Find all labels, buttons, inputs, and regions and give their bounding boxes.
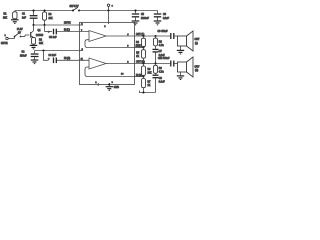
label C7 0.1uF (159, 51, 165, 57)
svg-text:10K: 10K (3, 17, 8, 19)
label R9 4.7 (159, 68, 164, 74)
svg-text:1K: 1K (136, 56, 139, 58)
svg-text:3V: 3V (18, 32, 21, 34)
label R4 22K (136, 42, 141, 48)
ground below R2 (30, 45, 38, 49)
node junction C1 bottom (32, 24, 34, 26)
wire supply stub down to IC pin 2 (108, 11, 110, 25)
speaker OUT L (178, 31, 194, 51)
ground below IC (106, 87, 113, 91)
label R1 10K (3, 14, 8, 20)
resistor R4 (142, 36, 146, 48)
label C6 0.1uF (163, 14, 169, 20)
resistor R9 zobel R (154, 64, 158, 75)
wire A2 output to pin 2 (106, 63, 135, 65)
label R5 1K (136, 53, 140, 59)
node junction ground pin (108, 83, 110, 85)
wire bypass node row to IC pin 5 (35, 50, 80, 52)
wire top supply rail right segment (79, 10, 158, 12)
ground below C5 (132, 21, 140, 25)
node junction pin10 R6 R7 (142, 75, 144, 77)
wire top supply rail left segment (15, 10, 73, 12)
label C2 100uF (20, 52, 27, 58)
wire bottom right ground row (140, 91, 156, 93)
wire A2 feedback loop (85, 67, 135, 77)
label C8 0.1uF (159, 78, 165, 84)
svg-text:1K: 1K (148, 85, 151, 87)
svg-text:IN (L): IN (L) (64, 29, 70, 31)
label OUT (L) speaker (195, 39, 200, 45)
wire OUT R row (135, 63, 171, 65)
pin 9 stub bottom (108, 83, 110, 86)
node junction pin8 R4 R5 (142, 46, 144, 48)
capacitor C9 (171, 33, 178, 39)
label PLAY 3V (17, 28, 23, 35)
svg-text:SW 5.7V: SW 5.7V (70, 6, 80, 8)
node junction R3 bottom (43, 24, 45, 26)
svg-text:BC548: BC548 (36, 35, 44, 37)
svg-text:C4 1uF: C4 1uF (49, 55, 57, 57)
resistor R5 (142, 48, 146, 64)
label OUT (R) speaker (195, 66, 200, 72)
svg-text:22K: 22K (136, 45, 141, 47)
svg-text:C10 470uF: C10 470uF (158, 58, 170, 60)
capacitor C10 (171, 61, 178, 67)
svg-text:10K: 10K (49, 18, 54, 20)
svg-text:22K: 22K (148, 73, 153, 75)
ground below speaker L (177, 50, 184, 54)
pin 1 stub bottom (97, 83, 99, 86)
label R6 22K (148, 69, 153, 75)
node junction R7 bottom (142, 91, 144, 93)
svg-text:1000uF: 1000uF (141, 18, 149, 20)
resistor R3 (43, 11, 47, 26)
capacitor C4 (54, 58, 90, 64)
op-amp A2 (89, 58, 106, 69)
wire drop from bypass node to C4 row (44, 51, 49, 61)
resistor R1 (13, 11, 17, 20)
capacitor C7 (153, 49, 159, 63)
resistor R7 (142, 77, 146, 93)
svg-text:C3 1uF: C3 1uF (49, 37, 57, 39)
label C1 1uF (22, 14, 27, 20)
wire A1 feedback loop (85, 40, 135, 48)
svg-text:4.7Ω: 4.7Ω (159, 70, 164, 73)
capacitor C3 (45, 25, 90, 34)
svg-text:OUT: OUT (195, 66, 200, 68)
capacitor C6 (154, 11, 161, 21)
label R2 10K (39, 39, 44, 45)
svg-text:4.7Ω: 4.7Ω (159, 44, 164, 47)
pin 6 stub (78, 24, 83, 26)
wire pin8 to R4 (135, 47, 144, 49)
svg-text:0.1uF: 0.1uF (159, 81, 165, 83)
switch PLAY (14, 33, 30, 38)
ground below speaker R (177, 76, 184, 80)
ground below R1 (11, 20, 19, 24)
op-amp A1 (89, 31, 106, 42)
capacitor C5 (132, 11, 139, 21)
svg-text:PLAY: PLAY (17, 28, 23, 31)
node junction R8 top (154, 35, 156, 37)
transistor Q1 (31, 25, 34, 38)
node junction R4 top (142, 35, 144, 37)
svg-text:IN (R): IN (R) (64, 58, 70, 60)
node junction supply stub on rail (107, 9, 109, 11)
resistor R8 zobel L (154, 36, 158, 49)
pin 5 stub (80, 50, 84, 52)
label Q1 BC548 (36, 30, 44, 37)
label C5 1000uF (141, 14, 149, 20)
connector J1 MUTE input (6, 37, 15, 40)
wire mute node line (34, 24, 80, 26)
node junction C1 top on rail (32, 9, 34, 11)
wire pin10 to R6 (135, 76, 144, 78)
resistor R2 (32, 37, 36, 45)
label R7 1K (148, 81, 152, 87)
svg-text:MUTE: MUTE (64, 23, 71, 25)
supply terminal above pin 2 (107, 4, 109, 10)
wire OUT L row (135, 35, 171, 37)
svg-text:0.1uF: 0.1uF (163, 18, 169, 20)
resistor R6 (142, 64, 146, 77)
node junction input feed (42, 49, 44, 51)
svg-text:C9 470uF: C9 470uF (158, 31, 169, 33)
speaker OUT R (178, 57, 194, 77)
svg-text:0.1uF: 0.1uF (159, 55, 165, 57)
svg-text:GND: GND (114, 87, 119, 89)
ground below C6 (154, 21, 162, 25)
IC U1 box (80, 22, 135, 84)
svg-text:MUTE: MUTE (1, 43, 8, 45)
svg-text:(L): (L) (195, 43, 198, 45)
node junction R6 top (142, 62, 144, 64)
node junction R3 top on rail (43, 9, 45, 11)
label R8 4.7 (159, 42, 164, 48)
wire A1 output to pin 4 (106, 35, 135, 37)
ground below C2 (31, 60, 39, 64)
label R3 10K (49, 14, 54, 20)
node junction R9 top (154, 62, 156, 64)
svg-text:100uF: 100uF (20, 55, 27, 57)
svg-text:1uF: 1uF (22, 17, 27, 19)
svg-text:10K: 10K (39, 43, 44, 45)
switch SW power on rail (72, 7, 80, 11)
svg-text:OUT: OUT (195, 39, 200, 41)
capacitor C1 (30, 11, 38, 26)
svg-text:(R): (R) (195, 70, 198, 72)
node junction C5 top on rail (134, 9, 136, 11)
capacitor C2 (31, 51, 39, 60)
capacitor C8 (153, 75, 159, 92)
